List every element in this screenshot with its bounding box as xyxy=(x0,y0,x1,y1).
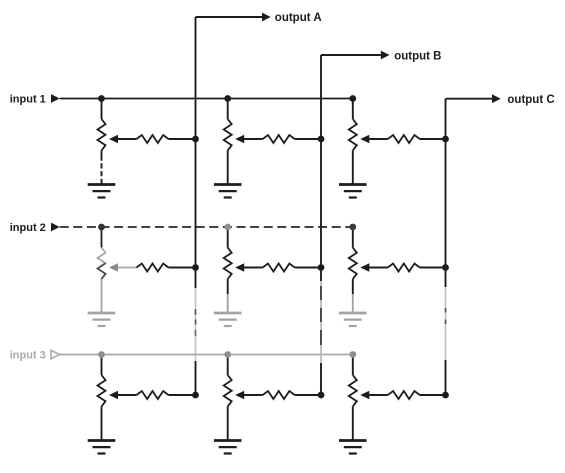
svg-text:output B: output B xyxy=(394,50,441,62)
svg-text:input 2: input 2 xyxy=(10,222,46,234)
svg-text:input 3: input 3 xyxy=(10,350,46,362)
svg-text:input 1: input 1 xyxy=(10,94,46,106)
svg-text:output C: output C xyxy=(507,94,554,106)
svg-text:output A: output A xyxy=(275,12,322,24)
